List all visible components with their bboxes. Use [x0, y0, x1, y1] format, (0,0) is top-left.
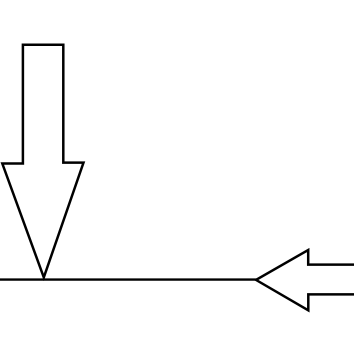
left arrow (hollow block arrow entering from right edge, pointing left) — [256, 250, 354, 310]
wire horizontal line — [0, 278, 257, 280]
down arrow (hollow block arrow pointing down at line) — [2, 45, 83, 278]
